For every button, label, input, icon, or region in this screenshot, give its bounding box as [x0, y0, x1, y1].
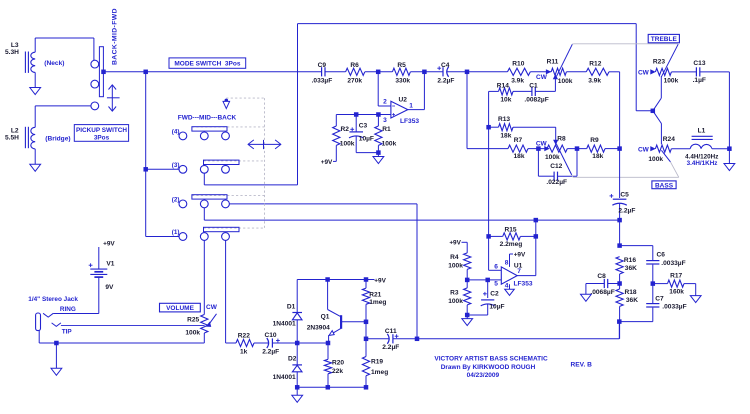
svg-text:1k: 1k [240, 349, 248, 356]
svg-text:R23: R23 [653, 59, 665, 66]
svg-text:R18: R18 [625, 289, 637, 296]
svg-text:C6: C6 [657, 252, 666, 259]
svg-text:LF353: LF353 [400, 118, 419, 125]
svg-text:1meg: 1meg [369, 299, 386, 306]
svg-text:2.2meg: 2.2meg [500, 241, 523, 248]
svg-text:+9V: +9V [514, 252, 526, 259]
svg-text:5.5H: 5.5H [5, 134, 19, 141]
svg-text:(3): (3) [172, 162, 180, 169]
svg-text:.0033µF: .0033µF [661, 260, 685, 267]
svg-text:MODE SWITCH 3Pos: MODE SWITCH 3Pos [174, 61, 240, 68]
svg-text:100k: 100k [382, 141, 397, 148]
svg-text:R4: R4 [450, 254, 459, 261]
svg-text:160k: 160k [669, 289, 684, 296]
svg-text:+9V: +9V [449, 240, 461, 247]
svg-text:3: 3 [383, 117, 387, 124]
svg-text:VOLUME: VOLUME [166, 305, 194, 312]
svg-text:100k: 100k [664, 78, 679, 85]
svg-text:+9V: +9V [321, 159, 333, 166]
svg-text:1: 1 [409, 103, 413, 110]
svg-text:8: 8 [505, 259, 509, 266]
svg-text:CW: CW [638, 146, 650, 153]
svg-text:FWD---MID---BACK: FWD---MID---BACK [178, 114, 237, 121]
svg-text:3Pos: 3Pos [94, 135, 110, 142]
svg-text:R8: R8 [557, 135, 566, 142]
svg-text:L1: L1 [698, 128, 706, 135]
svg-text:100k: 100k [545, 154, 560, 161]
svg-text:(2): (2) [172, 196, 180, 203]
svg-text:04/23/2009: 04/23/2009 [467, 372, 500, 379]
svg-text:R20: R20 [332, 359, 344, 366]
svg-text:100k: 100k [340, 141, 355, 148]
svg-text:R6: R6 [350, 62, 359, 69]
svg-text:R2: R2 [341, 126, 350, 133]
svg-text:C8: C8 [597, 273, 606, 280]
svg-text:18k: 18k [500, 132, 511, 139]
svg-text:C10: C10 [265, 332, 277, 339]
svg-text:3.4H/1KHz: 3.4H/1KHz [687, 160, 718, 167]
svg-text:C5: C5 [620, 191, 629, 198]
svg-text:R25: R25 [187, 317, 199, 324]
svg-text:C4: C4 [441, 62, 450, 69]
svg-text:(4): (4) [172, 129, 180, 136]
svg-text:270k: 270k [347, 77, 362, 84]
svg-text:.0068µF: .0068µF [590, 289, 614, 296]
svg-text:6: 6 [494, 264, 498, 271]
svg-text:10µF: 10µF [359, 136, 374, 143]
svg-text:5.3H: 5.3H [5, 49, 19, 56]
svg-text:R24: R24 [663, 136, 675, 143]
svg-text:CW: CW [536, 74, 548, 81]
svg-text:TIP: TIP [62, 328, 73, 335]
svg-text:Drawn By KIRKWOOD ROUGH: Drawn By KIRKWOOD ROUGH [441, 364, 536, 371]
svg-text:2: 2 [383, 98, 387, 105]
svg-text:R9: R9 [590, 137, 599, 144]
svg-text:D2: D2 [288, 355, 297, 362]
svg-text:Q1: Q1 [321, 314, 330, 321]
svg-text:.0082µF: .0082µF [524, 97, 548, 104]
svg-text:VICTORY ARTIST BASS SCHEMATIC: VICTORY ARTIST BASS SCHEMATIC [434, 356, 548, 363]
svg-text:BASS: BASS [655, 182, 674, 189]
svg-text:100k: 100k [185, 330, 200, 337]
svg-text:R5: R5 [397, 62, 406, 69]
svg-text:100k: 100k [448, 298, 463, 305]
svg-text:(1): (1) [172, 229, 180, 236]
svg-text:(Bridge): (Bridge) [45, 135, 70, 142]
svg-text:(Neck): (Neck) [44, 60, 64, 67]
svg-text:U1: U1 [514, 263, 523, 270]
svg-text:REV. B: REV. B [571, 362, 593, 369]
svg-text:2.2µF: 2.2µF [437, 77, 454, 84]
svg-text:2.2µF: 2.2µF [262, 349, 279, 356]
svg-text:1meg: 1meg [371, 369, 388, 376]
svg-text:9V: 9V [105, 284, 114, 291]
svg-text:2.2µF: 2.2µF [618, 208, 635, 215]
svg-text:1/4" Stereo Jack: 1/4" Stereo Jack [28, 296, 78, 303]
svg-text:.022µF: .022µF [546, 179, 567, 186]
svg-text:18k: 18k [592, 153, 603, 160]
svg-text:.0033µF: .0033µF [662, 303, 686, 310]
svg-text:TREBLE: TREBLE [651, 36, 678, 43]
svg-text:CW: CW [206, 304, 218, 311]
svg-text:330k: 330k [395, 77, 410, 84]
svg-text:CW: CW [638, 70, 650, 77]
svg-text:R1: R1 [382, 126, 391, 133]
svg-text:C9: C9 [318, 62, 327, 69]
svg-text:BACK-MID-FWD: BACK-MID-FWD [111, 8, 118, 65]
svg-text:2N3904: 2N3904 [307, 324, 330, 331]
svg-text:C1: C1 [529, 83, 538, 90]
svg-text:100k: 100k [558, 78, 573, 85]
svg-text:R14: R14 [497, 83, 509, 90]
svg-text:CW: CW [536, 140, 548, 147]
svg-text:C7: C7 [655, 296, 664, 303]
svg-text:C2: C2 [490, 291, 499, 298]
svg-text:1N4001: 1N4001 [273, 374, 296, 381]
svg-text:R19: R19 [371, 359, 383, 366]
svg-text:R17: R17 [670, 272, 682, 279]
svg-text:+9V: +9V [103, 240, 115, 247]
svg-text:R15: R15 [505, 227, 517, 234]
svg-text:R11: R11 [547, 59, 559, 66]
svg-text:C13: C13 [693, 60, 705, 67]
svg-text:PICKUP SWITCH: PICKUP SWITCH [76, 127, 127, 134]
svg-text:U2: U2 [399, 97, 408, 104]
svg-text:+9V: +9V [374, 277, 386, 284]
svg-text:C12: C12 [550, 163, 562, 170]
svg-text:V1: V1 [106, 261, 114, 268]
svg-text:C11: C11 [385, 328, 397, 335]
svg-text:2.2µF: 2.2µF [382, 344, 399, 351]
svg-text:22k: 22k [332, 368, 343, 375]
svg-text:RING: RING [60, 306, 76, 313]
svg-text:R22: R22 [238, 333, 250, 340]
svg-text:100k: 100k [648, 156, 663, 163]
svg-text:100k: 100k [448, 263, 463, 270]
svg-text:R13: R13 [498, 116, 510, 123]
svg-text:R7: R7 [514, 137, 523, 144]
svg-text:4: 4 [505, 283, 509, 290]
svg-text:LF353: LF353 [514, 281, 533, 288]
svg-text:10k: 10k [500, 97, 511, 104]
svg-text:.033µF: .033µF [312, 77, 333, 84]
svg-text:3.9k: 3.9k [511, 77, 524, 84]
svg-text:3.9k: 3.9k [588, 77, 601, 84]
svg-text:R16: R16 [624, 257, 636, 264]
svg-text:5: 5 [494, 281, 498, 288]
svg-text:1N4001: 1N4001 [273, 320, 296, 327]
svg-text:D1: D1 [287, 303, 296, 310]
svg-text:36K: 36K [626, 297, 638, 304]
svg-text:R21: R21 [369, 291, 381, 298]
svg-text:R10: R10 [512, 61, 524, 68]
svg-text:.1µF: .1µF [693, 77, 706, 84]
svg-text:R12: R12 [589, 61, 601, 68]
svg-text:R3: R3 [450, 290, 459, 297]
svg-text:10µF: 10µF [489, 304, 504, 311]
svg-text:18k: 18k [514, 153, 525, 160]
svg-text:C3: C3 [359, 123, 368, 130]
svg-text:36K: 36K [625, 265, 637, 272]
